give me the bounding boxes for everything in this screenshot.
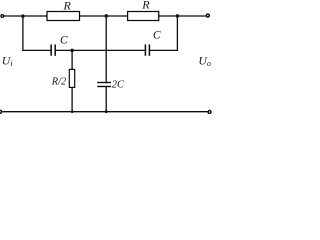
wire: right vertical, output node down to C row xyxy=(176,16,178,51)
node: R/2 ground junction xyxy=(71,110,74,113)
svg-text:C: C xyxy=(60,35,68,47)
wire top: R1 to R2 xyxy=(80,15,128,17)
wire: middle vertical, R-R node down to 2C top plate xyxy=(105,16,107,82)
capacitor 2C top plate xyxy=(97,82,111,84)
terminal bottom-right xyxy=(208,111,211,114)
capacitor C1 plates xyxy=(50,44,52,55)
resistor R/2 (vertical) xyxy=(69,69,74,87)
capacitor 2C bottom plate xyxy=(97,86,111,88)
wire: C row middle segment xyxy=(56,49,145,51)
wire: C row right segment xyxy=(150,49,178,51)
svg-text:C: C xyxy=(153,30,161,42)
wire top: terminal to R1 xyxy=(4,15,47,17)
node: R-R midpoint xyxy=(105,14,109,18)
svg-text:R: R xyxy=(141,0,150,12)
node: C-C midpoint xyxy=(70,49,74,53)
wire: R/2 down to ground rail xyxy=(71,87,73,111)
wire top: R2 to output terminal xyxy=(159,15,206,17)
svg-text:R: R xyxy=(63,0,72,12)
wire: C row left segment xyxy=(22,49,50,51)
svg-text:2C: 2C xyxy=(112,80,125,91)
node: 2C ground junction xyxy=(105,110,108,113)
resistor R2 xyxy=(128,12,159,21)
wire: left vertical, input node down to C row xyxy=(22,16,24,51)
svg-text:R/2: R/2 xyxy=(51,77,66,88)
node: input junction xyxy=(21,14,25,18)
capacitor C2 plates xyxy=(144,44,146,55)
svg-text:Ui: Ui xyxy=(2,54,13,69)
terminal bottom-left xyxy=(0,110,2,113)
output terminal top-right xyxy=(206,14,209,17)
resistor R1 xyxy=(47,12,80,21)
wire: C-C node down to R/2 xyxy=(71,50,73,69)
bottom ground rail wire xyxy=(2,111,207,113)
node: output junction xyxy=(176,14,180,18)
wire: 2C bottom plate down to ground rail xyxy=(105,87,107,112)
svg-text:Uo: Uo xyxy=(198,54,211,69)
input terminal top-left xyxy=(1,15,4,18)
